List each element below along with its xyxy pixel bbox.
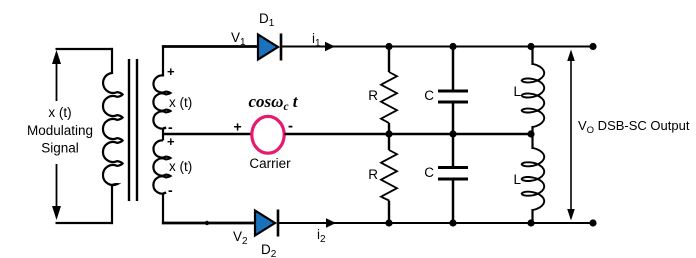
wire bottom rail right of D2 [278,222,593,224]
capacitor C2 wire top [452,134,455,166]
svg-text:L: L [513,172,521,187]
svg-text:Carrier: Carrier [249,156,291,171]
svg-text:-: - [168,182,173,198]
svg-text:D2: D2 [261,242,277,258]
node bottom rail L [527,219,534,226]
resistor R1 [381,72,397,123]
node bottom rail output [589,219,596,226]
wire middle rail right [285,133,532,135]
capacitor C2 wire bottom [452,181,455,224]
svg-text:Signal: Signal [41,141,79,156]
wire primary bottom [56,222,114,224]
svg-text:-: - [168,119,173,135]
svg-text:R: R [368,167,378,182]
svg-text:-: - [288,118,293,135]
wire secondary center tap junction [162,129,164,141]
svg-text:D1: D1 [259,11,275,29]
resistor R2 [381,150,397,201]
inductor L2 [522,148,545,210]
svg-text:+: + [167,64,175,79]
svg-text:V2: V2 [233,229,248,247]
wire top rail right of D1 [281,46,593,48]
svg-text:i2: i2 [317,227,326,245]
capacitor C1 wire bottom [452,104,455,135]
junction small dot bottom-left wire [205,221,209,225]
modulating signal label [24,101,98,164]
resistor R1 wire top [388,45,390,72]
node middle rail L [527,130,534,137]
capacitor C2 [438,168,468,180]
node top rail C [449,43,456,50]
modulating signal arrow [52,50,61,220]
current arrow i1 [325,42,335,52]
wire middle rail left [163,133,252,135]
svg-text:C: C [424,165,434,180]
wire secondary top stub [162,45,164,76]
wire primary right bottom stub [111,184,113,224]
output voltage arrow [567,50,575,221]
node top rail output [589,43,596,50]
node middle rail R [385,130,392,137]
node bottom rail C [449,219,456,226]
wire bottom rail left [162,222,255,225]
wire top rail left [162,45,258,48]
inductor L2 wire bottom [531,209,533,223]
node top rail L [527,43,534,50]
node middle rail C [449,130,456,137]
svg-text:cosωc t: cosωc t [248,92,298,113]
inductor L1 wire bottom [531,126,533,135]
svg-text:+: + [167,134,175,149]
inductor L1 [522,64,545,127]
svg-text:x (t): x (t) [169,159,192,174]
carrier source [252,116,284,153]
svg-text:x (t): x (t) [48,105,71,120]
resistor R2 wire bottom [388,201,390,224]
svg-text:L: L [513,84,521,99]
transformer T1 core [129,59,137,201]
capacitor C1 [438,91,468,102]
current arrow i2 [326,218,336,228]
svg-text:C: C [424,88,434,103]
wire primary right top stub [111,48,113,74]
node top rail R [385,43,392,50]
svg-text:R: R [368,88,378,103]
capacitor C1 wire top [452,45,455,89]
svg-text:Modulating: Modulating [27,123,93,138]
diode D2 [255,210,278,237]
wire secondary bottom stub [162,194,164,225]
inductor L1 wire top [531,45,533,65]
resistor R2 wire top [388,134,390,150]
svg-text:VO DSB-SC Output: VO DSB-SC Output [578,118,690,136]
transformer T1 secondary winding lower [153,140,170,193]
svg-text:x (t): x (t) [169,95,192,110]
transformer T1 primary winding [103,73,123,185]
transformer T1 secondary winding upper [153,75,170,128]
node bottom rail R [385,219,392,226]
diode D1 [258,34,281,61]
inductor L2 wire top [531,134,533,149]
wire primary top [56,48,114,50]
resistor R1 wire bottom [388,123,390,134]
svg-text:+: + [234,119,242,135]
